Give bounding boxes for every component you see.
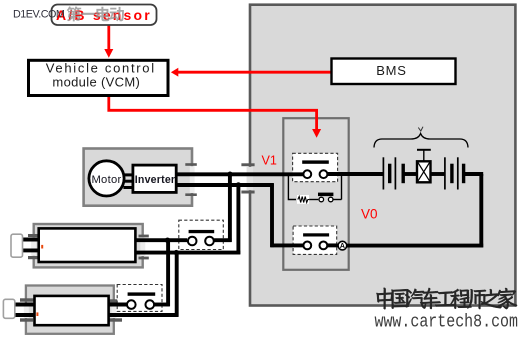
- svg-text:D1EV.COM: D1EV.COM: [13, 9, 65, 21]
- svg-text:V0: V0: [361, 206, 378, 221]
- svg-text:BMS: BMS: [376, 63, 407, 78]
- svg-text:www.cartech8.com: www.cartech8.com: [375, 311, 519, 332]
- svg-text:Vehicle control: Vehicle control: [46, 60, 156, 75]
- svg-text:module (VCM): module (VCM): [52, 75, 140, 90]
- svg-text:Inverter: Inverter: [135, 174, 175, 186]
- svg-text:Motor: Motor: [91, 174, 121, 186]
- svg-text:V1: V1: [262, 153, 277, 167]
- svg-text:A: A: [340, 243, 345, 250]
